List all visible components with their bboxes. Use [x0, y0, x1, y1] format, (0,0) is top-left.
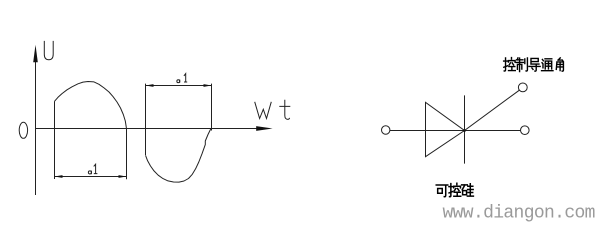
Wt axis (horizontal) — [36, 128, 257, 130]
Wt axis arrowhead — [256, 126, 272, 131]
lower dimension left arrow — [55, 175, 63, 178]
thyristor anode terminal circle — [382, 126, 390, 134]
right extension line of lower dimension — [126, 128, 128, 179]
positive half-wave curve — [55, 82, 127, 129]
label 控制导通角 (control conduction angle) — [504, 58, 564, 72]
upper dimension right arrow — [204, 84, 212, 87]
gate terminal circle — [518, 83, 527, 92]
label O (origin) — [19, 122, 27, 138]
upper dimension line a1 — [146, 85, 212, 87]
label t — [279, 100, 290, 120]
junction node — [463, 129, 466, 132]
gate lead — [465, 90, 520, 130]
label U — [44, 41, 53, 60]
right extension line of upper dimension — [211, 84, 213, 131]
upper dimension left arrow — [146, 84, 154, 87]
svg-text:www.diangon.com: www.diangon.com — [443, 204, 595, 224]
thyristor cathode bar — [464, 95, 466, 163]
thyristor triangle — [426, 102, 465, 156]
U axis arrowhead — [33, 45, 38, 63]
wire anode to cathode terminal — [390, 130, 521, 132]
lower dimension line a1 — [55, 176, 127, 178]
positive half-wave rising edge (firing) + left extension line — [54, 101, 56, 179]
negative half-wave curve — [146, 129, 212, 182]
label 可控硅 (thyristor/SCR) — [436, 183, 473, 197]
U axis (vertical) — [35, 60, 37, 195]
cathode terminal circle — [521, 126, 530, 135]
upper dimension text a1 — [177, 74, 187, 83]
lower dimension text a1 — [88, 164, 97, 174]
lower dimension right arrow — [119, 175, 127, 178]
label W — [255, 102, 272, 119]
negative half-wave falling edge (firing) + left extension line of upper dimension — [145, 84, 147, 155]
